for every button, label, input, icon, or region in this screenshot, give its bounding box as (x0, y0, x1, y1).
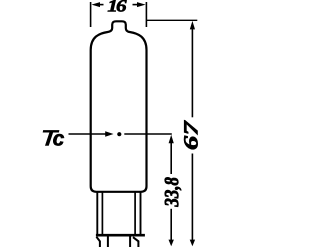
Tc height arrow down (169, 240, 174, 247)
Tc extension line (124, 133, 172, 135)
diameter label 16 (108, 0, 127, 11)
Tc arrow (69, 133, 107, 135)
diameter extension line right (145, 2, 147, 27)
lamp bulb outline (91, 21, 147, 192)
Tc height label 33,8 (165, 177, 181, 206)
Tc height dimension line lower (170, 209, 172, 241)
left pin loop outer (96, 237, 100, 247)
Tc label (43, 130, 64, 145)
lamp base block inner right (134, 192, 136, 235)
overall length arrow down (190, 240, 195, 247)
top extension line for overall length (146, 19, 197, 21)
overall length label 67 (184, 120, 197, 149)
overall length dimension line upper (191, 29, 193, 118)
Tc point (117, 132, 121, 136)
lamp base block outer left (96, 192, 98, 235)
overall length arrow up (190, 21, 195, 30)
Tc height dimension line upper (170, 143, 172, 174)
lamp base bottom plate (96, 234, 145, 237)
right pin loop outer (133, 237, 138, 247)
overall length dimension line lower (191, 154, 193, 241)
diameter arrow left (92, 2, 101, 7)
Tc height arrow up (169, 135, 174, 144)
right pin loop inner (129, 237, 131, 247)
left pin loop inner (107, 237, 109, 247)
diameter arrow right (137, 2, 146, 7)
lamp base block outer right (140, 192, 142, 235)
diameter extension line left (90, 2, 92, 27)
lamp base block inner left (101, 192, 103, 235)
